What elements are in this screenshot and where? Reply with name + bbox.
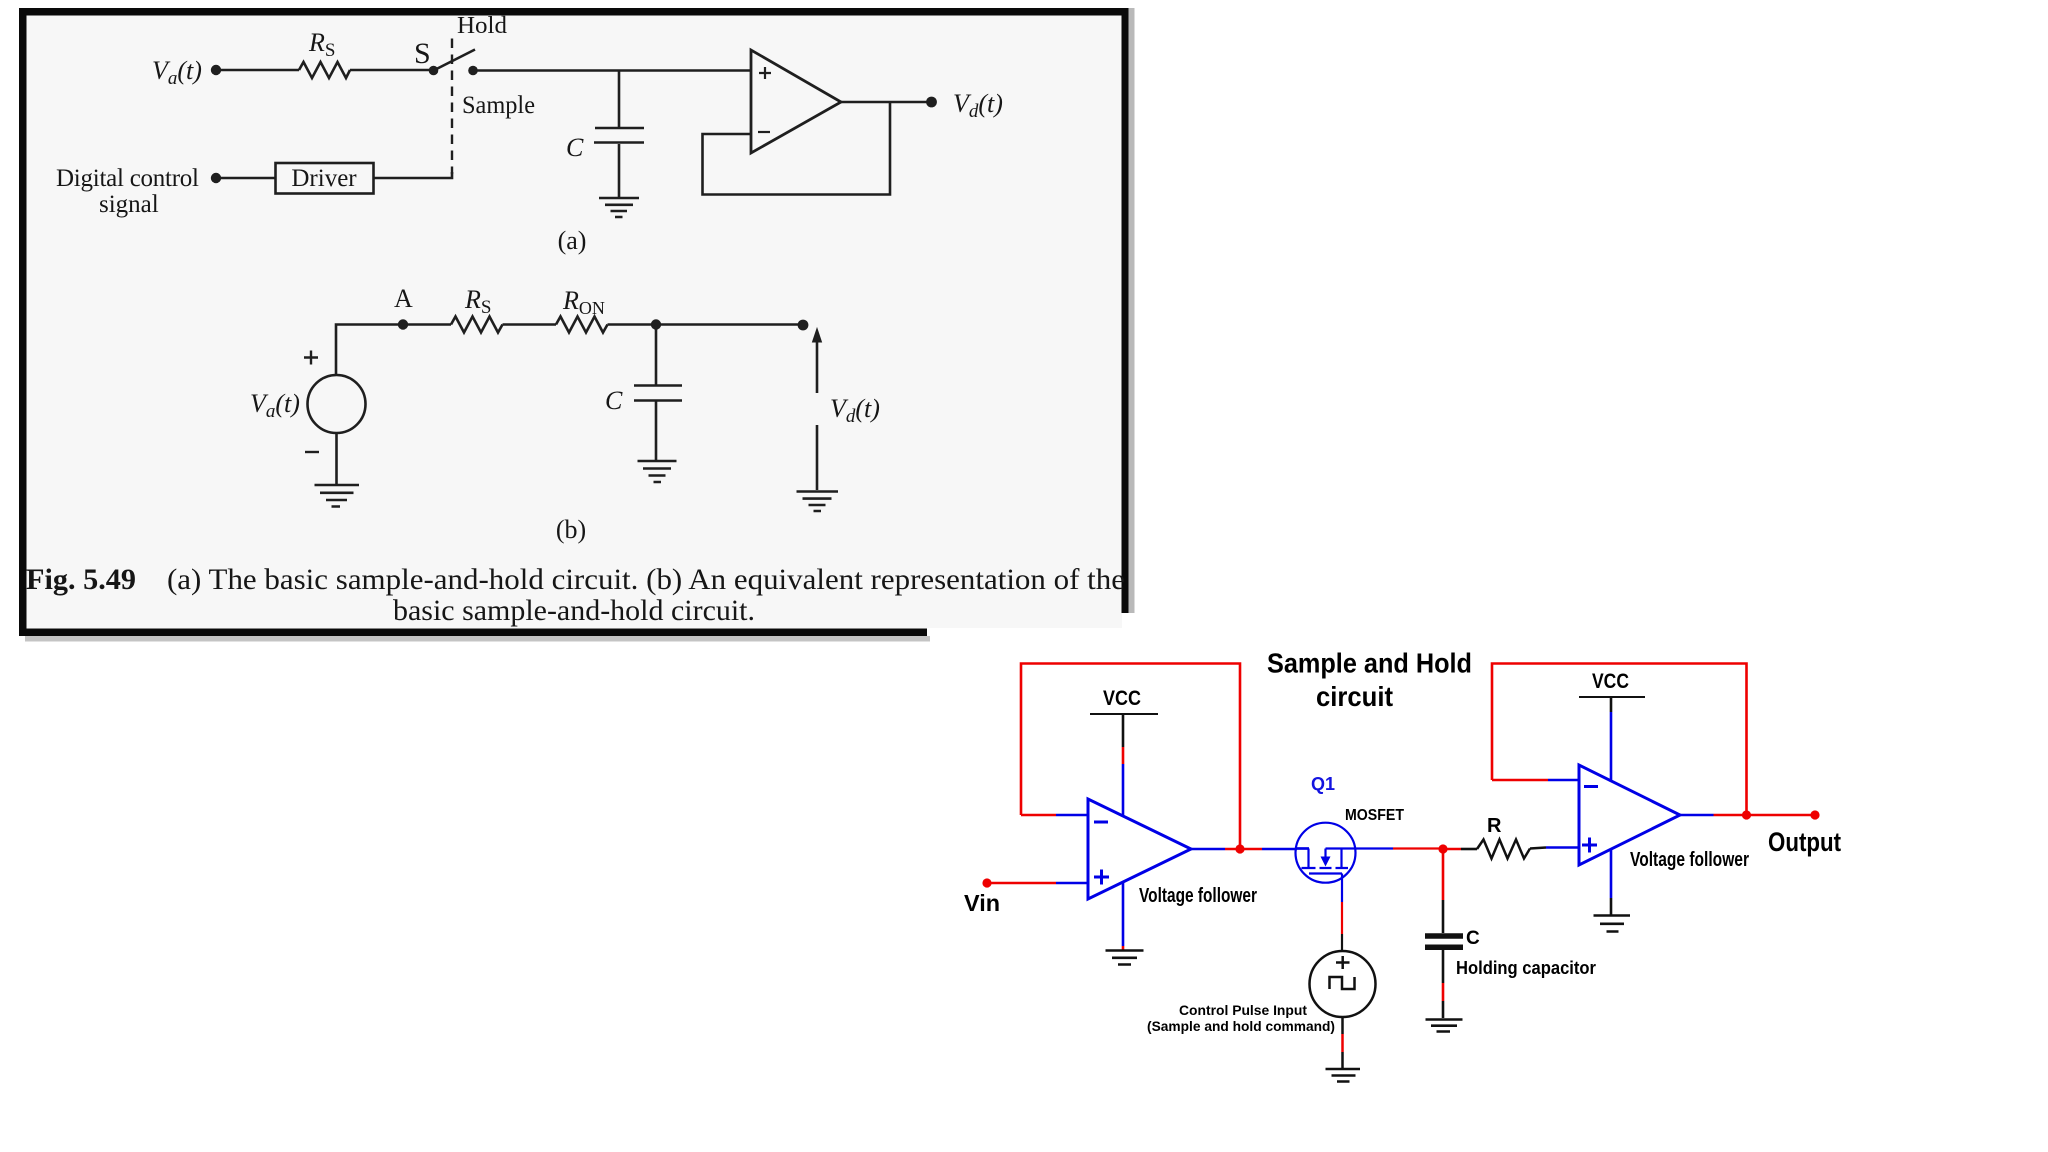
Driver box [276,163,374,194]
border frame bottom [19,629,927,637]
ground below C (b) [638,461,677,482]
svg-text:VCC: VCC [1103,687,1141,710]
ground below Vd [797,492,839,512]
svg-text:signal: signal [99,191,159,218]
svg-text:Voltage follower: Voltage follower [1139,885,1257,907]
op-amp U2 triangle [1579,765,1680,865]
pulse source + sign [1336,956,1350,969]
source - sign [305,451,319,453]
Vin wire [987,882,1056,885]
MOSFET arrow head [1321,857,1331,867]
MOSFET source wire [1326,847,1356,849]
MOSFET source stub [1340,849,1342,868]
svg-text:Driver: Driver [291,165,357,192]
U1 output node dot [1235,844,1244,853]
resistor R leads [1443,848,1461,851]
junction dot at C [651,319,661,329]
resistor R zigzag [1477,840,1530,859]
switch throw dot [468,66,478,76]
VCC rail U2 [1579,696,1645,698]
MOSFET drain stub [1307,849,1309,868]
VCC rail U1 [1090,713,1158,715]
wire switch to op-amp + input [473,69,751,72]
svg-text:(a): (a) [558,226,587,255]
holding capacitor C plates [1425,936,1463,947]
svg-text:A: A [394,284,413,313]
MOSFET source wire right [1355,847,1393,849]
U2 + symbol [1582,838,1597,853]
resistor RS (b) [451,317,503,333]
wire input to Rs [216,69,299,72]
Vd arrow stem lower [816,425,819,490]
svg-text:C: C [566,133,584,162]
U2 - symbol [1584,785,1598,788]
MOSFET gate wire down [1341,874,1343,903]
ground U2 [1594,916,1631,932]
wire R to op-amp 2 [1530,848,1546,849]
svg-text:Output: Output [1768,827,1841,857]
capacitor C lower wire [618,144,621,197]
output node dot (b) [798,320,809,331]
capacitor C plates [594,128,644,143]
node digital control dot [211,173,221,183]
op-amp U1 triangle [751,50,841,153]
svg-text:Vin: Vin [964,890,1000,916]
svg-text:S: S [414,37,431,70]
wire to MOSFET drain [1262,848,1297,851]
dashed control line [451,39,453,175]
resistor RS [299,62,350,78]
svg-text:basic sample-and-hold circuit.: basic sample-and-hold circuit. [393,594,755,627]
switch arm [434,50,476,71]
wire Rs to switch [350,69,433,72]
U1 inverting input wire [1021,814,1056,817]
MOSFET Q1 circle [1296,823,1356,883]
wire Rs to Ron [503,323,557,326]
op-amp output wire [841,101,931,104]
border frame top [19,8,1129,16]
wire source to ground [335,433,338,484]
MOSFET channel bars [1302,867,1349,869]
svg-text:C: C [605,386,623,415]
source + sign [304,351,318,365]
op-amp + symbol [759,67,771,79]
svg-text:VCC: VCC [1592,670,1629,693]
svg-text:circuit: circuit [1316,681,1393,712]
U2 ground stem [1610,849,1613,898]
output terminal dot [1810,810,1819,819]
op-amp U1 feedback red loop [1021,664,1240,847]
U2 supply stem [1610,697,1613,712]
svg-text:MOSFET: MOSFET [1345,807,1404,824]
capacitor C (b) upper wire [655,325,658,385]
border frame left [19,8,27,636]
op-amp - symbol [758,131,770,133]
wire source top [336,325,451,376]
svg-text:Vd(t): Vd(t) [953,89,1003,122]
svg-text:Va(t): Va(t) [250,389,300,422]
U1 supply stem [1122,714,1125,747]
svg-text:(a) The basic sample-and-hold: (a) The basic sample-and-hold circuit. (… [167,563,1125,596]
ground below source [315,485,360,507]
svg-text:R: R [1487,815,1502,837]
holding capacitor upper stem [1442,853,1445,900]
svg-text:Control Pulse Input: Control Pulse Input [1179,1003,1308,1018]
holding capacitor lower stem [1442,950,1445,983]
op-amp U2 feedback red loop [1492,664,1747,813]
svg-text:C: C [1466,928,1480,949]
ground below C [599,198,639,217]
node A dot [398,319,408,329]
U1 + symbol [1094,870,1109,885]
capacitor C (b) lower wire [655,401,658,460]
svg-text:Holding capacitor: Holding capacitor [1456,958,1596,978]
scanned figure background [26,15,1122,628]
MOSFET body line [1309,872,1342,874]
pulse source square wave glyph [1330,977,1355,989]
border frame right [1122,8,1129,613]
U2 inverting input wire [1492,779,1548,782]
node Va(t) input dot [211,65,221,75]
switch S pole dot [429,66,439,76]
source Va circle [308,375,366,433]
wire Driver to dashed line [374,172,453,178]
capacitor C (b) plates [634,386,682,401]
U1 output wire [1191,848,1225,851]
output node dot [926,97,937,108]
MOSFET drain wire [1297,847,1309,849]
svg-text:Fig. 5.49: Fig. 5.49 [26,563,136,596]
svg-text:Hold: Hold [457,13,507,39]
svg-text:(b): (b) [556,515,586,544]
pulse source circle [1310,951,1376,1017]
feedback wire loop [703,103,891,195]
U1 ground stem [1122,882,1125,946]
node holding-cap junction dot [1438,844,1447,853]
wire to Driver box [216,177,275,180]
U2 output junction dot [1742,810,1751,819]
capacitor C wire from node [618,70,621,127]
wire Ron to output node [608,323,804,326]
MOSFET arrow stem [1324,849,1326,858]
Vd arrow stem upper [816,341,819,393]
U2 output wire [1680,814,1714,817]
svg-text:Va(t): Va(t) [152,56,202,89]
ground below holding capacitor [1426,1020,1463,1032]
ground below pulse source [1326,1069,1361,1082]
svg-text:Sample: Sample [462,92,535,119]
pulse source lower wire [1341,1017,1344,1034]
node Vin dot [982,878,991,887]
svg-text:Voltage follower: Voltage follower [1630,849,1749,871]
svg-text:(Sample and hold command): (Sample and hold command) [1147,1019,1335,1034]
svg-text:Digital control: Digital control [56,165,199,192]
svg-text:Vd(t): Vd(t) [830,394,880,427]
resistor RON [556,317,608,333]
ground U1 [1106,951,1144,965]
op-amp U1 triangle [1088,799,1191,899]
Vd arrow head [813,329,822,343]
svg-text:Sample and Hold: Sample and Hold [1267,648,1472,679]
U1 - symbol [1094,821,1108,824]
svg-text:Q1: Q1 [1311,774,1335,794]
